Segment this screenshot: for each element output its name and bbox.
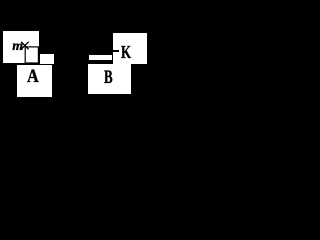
block B (88, 64, 131, 94)
notch in K (113, 50, 119, 52)
block A (17, 65, 52, 97)
inner square + X mark (0, 0, 151, 100)
X mark (21, 42, 28, 50)
label K (121, 43, 131, 61)
inner square outline (25, 47, 38, 63)
label m (12, 40, 23, 54)
small box on A (40, 54, 54, 64)
label B (104, 69, 113, 88)
label A (27, 68, 39, 87)
bar above B (89, 55, 112, 60)
box m (label enclosure) (3, 31, 39, 63)
box K (113, 33, 147, 64)
